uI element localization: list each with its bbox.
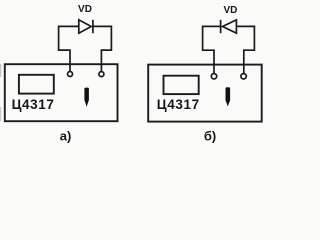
svg-text:а): а) xyxy=(60,128,72,143)
svg-text:VD: VD xyxy=(223,5,237,16)
svg-text:Ц4317: Ц4317 xyxy=(12,97,55,112)
svg-text:б): б) xyxy=(204,128,216,143)
svg-text:VD: VD xyxy=(78,4,92,15)
svg-text:Ц4317: Ц4317 xyxy=(157,97,200,112)
